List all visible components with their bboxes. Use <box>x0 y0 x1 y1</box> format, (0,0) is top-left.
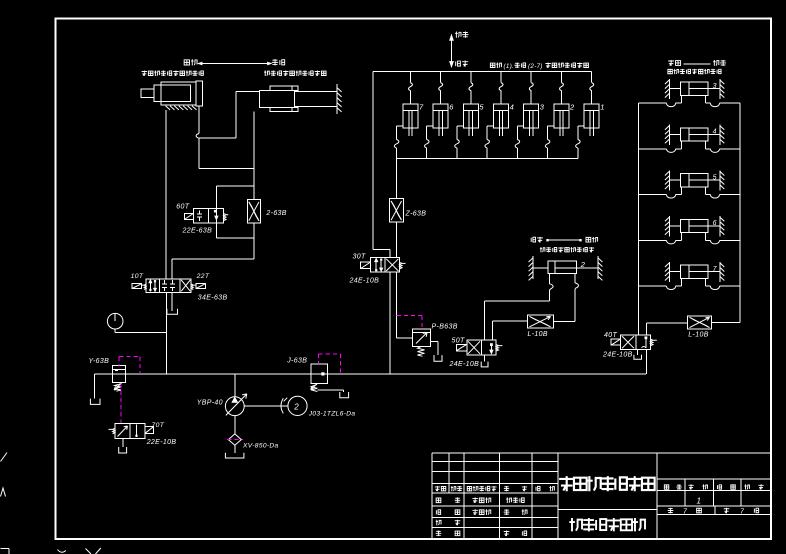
right header mark qty mass scale <box>664 485 668 489</box>
spring of valve 60T <box>224 214 229 221</box>
wire 50T to throttle L-10B <box>492 321 494 340</box>
direction arrow line <box>199 63 272 65</box>
tank symbol under 40T <box>637 350 639 355</box>
solenoid coil 50T <box>456 344 467 351</box>
throttle valve L-10B (right) <box>688 316 712 329</box>
label xiang-zuo (left) <box>668 60 674 66</box>
caption loading manipulator fwd/back cylinder <box>264 70 269 75</box>
cylinder front-back loading (top-middle) <box>259 90 294 107</box>
relief valve Y-63B <box>113 366 126 383</box>
svg-text:4: 4 <box>510 103 515 112</box>
tank symbol under 70T <box>122 438 124 447</box>
spring of P-B63B <box>418 347 425 357</box>
row design <box>436 498 441 503</box>
label xia-jiang (down) <box>456 61 461 66</box>
tank symbol under 50T <box>484 355 486 362</box>
svg-text:5: 5 <box>479 103 484 112</box>
lift cylinder 1 <box>591 72 593 83</box>
arrow line <box>684 63 711 65</box>
bypass frame of valve group 22E-63B <box>216 185 254 187</box>
lift cylinder 5 <box>470 72 472 83</box>
valve 34E-63B three-position <box>146 279 191 293</box>
svg-text:10T: 10T <box>131 273 144 280</box>
caption traverse cylinders of feed manipulator <box>668 69 672 73</box>
svg-text:P-B63B: P-B63B <box>432 324 458 331</box>
svg-text:2: 2 <box>293 402 299 411</box>
svg-text:6: 6 <box>713 220 717 227</box>
spring of Y-63B <box>115 384 121 391</box>
svg-text:L-10B: L-10B <box>688 331 708 338</box>
label xiang-you of cylinder 2 <box>586 237 591 242</box>
clipped mark left margin <box>1 453 8 462</box>
svg-text:24E-10B: 24E-10B <box>349 277 380 284</box>
solenoid coil 30T <box>361 262 371 269</box>
fixed wall left of cylinder 2 <box>532 256 534 279</box>
svg-text:6: 6 <box>449 103 454 112</box>
pilot check valve Z-63B <box>390 199 404 222</box>
label xiang-zuo of cylinder 2 <box>531 237 536 242</box>
wire 40T bottom to main line <box>646 350 648 374</box>
svg-text:Z-63B: Z-63B <box>405 210 427 217</box>
svg-text:30T: 30T <box>353 253 366 260</box>
svg-text:22E-10B: 22E-10B <box>146 439 177 446</box>
bottom manifold line of lift cylinder bank <box>397 158 578 160</box>
pilot loop of J-63B (dashed) <box>317 354 319 364</box>
valve 50T 24E-10B <box>467 340 496 355</box>
lift cylinder 3 <box>530 72 532 83</box>
left rail from manifold down to valve 30T <box>372 72 374 250</box>
wire 30T left port to tank line <box>389 272 391 374</box>
label xiang-qian (forward) <box>272 59 278 65</box>
spring of valve 50T <box>496 345 502 352</box>
wire junction to loading cylinder <box>199 137 236 139</box>
pressure gauge <box>107 313 123 329</box>
lift cylinder 2 <box>560 72 562 83</box>
svg-text:L-10B: L-10B <box>528 331 548 338</box>
solenoid coil 10T <box>132 284 142 289</box>
tank symbol under filter <box>234 445 236 453</box>
pilot line to P-B63B (dashed) <box>397 315 422 317</box>
row total 7 sheets <box>668 508 674 514</box>
title block grid <box>431 453 433 539</box>
label xiang-you (right) <box>713 60 719 66</box>
pilot check valve 2-63B <box>247 200 260 223</box>
label xiang-hou (backward) <box>184 60 189 65</box>
svg-text:YBP-40: YBP-40 <box>197 399 223 406</box>
spring of valve 40T <box>650 339 656 346</box>
svg-text:60T: 60T <box>176 204 189 211</box>
svg-text:Y-63B: Y-63B <box>89 358 110 365</box>
wire loading cylinder bottom port down to valve group <box>253 111 255 185</box>
cylinder front-back feed (top-left) <box>161 82 196 105</box>
solenoid coil 70T <box>145 427 154 434</box>
wire to loading cylinder left port <box>236 90 260 92</box>
drain of P-B63B to tank <box>431 340 438 342</box>
fixed wall for loading cylinder rod <box>336 84 338 114</box>
svg-text:4: 4 <box>713 129 717 136</box>
svg-text:1: 1 <box>697 496 702 505</box>
relief valve P-B63B <box>413 329 431 346</box>
lift cylinder 4 <box>500 72 502 83</box>
clipped marks bottom margin <box>1 548 10 550</box>
wire bottom manifold to check valve Z-63B <box>396 159 398 199</box>
wire L-10B to clamp cylinder right <box>553 320 575 322</box>
variable pump YBP-40 <box>234 374 236 397</box>
caption loading manipulator traverse cylinder <box>540 247 545 252</box>
valve 70T 22E-10B <box>115 423 145 438</box>
main pressure/return line <box>95 373 646 375</box>
wire cylinder 2 left port to 50T <box>549 291 551 301</box>
title text Wuxi Technician College <box>569 518 582 531</box>
svg-text:J03-1TZL6-Da: J03-1TZL6-Da <box>308 410 356 417</box>
svg-text:5: 5 <box>713 174 717 181</box>
caption lift cylinders 1-7 <box>490 63 495 67</box>
top manifold line of lift cylinder bank <box>373 71 592 73</box>
caption feed manipulator fwd/back cylinder <box>142 70 147 75</box>
spring of valve 70T <box>109 428 116 434</box>
throttle valve L-10B (left) <box>527 315 553 328</box>
svg-text:22E-63B: 22E-63B <box>182 227 213 234</box>
svg-text:2-63B: 2-63B <box>265 210 286 217</box>
solenoid coil 40T <box>611 339 621 345</box>
traverse cylinder 6 <box>668 216 670 236</box>
up-down arrow <box>451 35 453 68</box>
svg-text:XV-850-Da: XV-850-Da <box>242 442 279 449</box>
valve 40T 24E-10B <box>621 335 651 350</box>
lift cylinder 6 <box>440 72 442 83</box>
row drawn-by <box>436 510 441 515</box>
svg-text:34E-63B: 34E-63B <box>198 295 228 302</box>
svg-text:50T: 50T <box>452 338 465 345</box>
label shang-sheng (up) <box>455 32 461 38</box>
relief valve J-63B <box>311 364 327 383</box>
svg-text:1: 1 <box>600 103 605 112</box>
cylinder 2 (loading manipulator traverse) <box>548 261 577 273</box>
svg-text:40T: 40T <box>604 332 617 339</box>
wire cylinder 2 right port to L-10B <box>574 290 576 322</box>
spring right of 34E-63B <box>191 284 196 290</box>
svg-text:22T: 22T <box>196 273 210 280</box>
suction filter XV-850 <box>234 416 236 434</box>
traverse cylinder 3 <box>668 79 670 99</box>
row check <box>436 520 441 526</box>
title text hydraulic system schematic <box>559 476 574 491</box>
wire frame bottom to 34E-63B port B <box>253 238 255 259</box>
shaft pump to motor <box>244 405 288 407</box>
svg-text:J-63B: J-63B <box>286 358 307 365</box>
svg-text:24E-10B: 24E-10B <box>602 351 633 358</box>
svg-text:2: 2 <box>569 103 575 112</box>
pedestal of cylinder 2 <box>549 274 551 284</box>
svg-text:2: 2 <box>580 260 586 269</box>
svg-text:70T: 70T <box>152 422 165 429</box>
mount hatching under cylinder <box>166 106 171 110</box>
row process <box>436 531 442 537</box>
wire right port of feed cylinder <box>198 106 200 133</box>
pilot loop of Y-63B (dashed) <box>118 357 120 367</box>
svg-text:3: 3 <box>540 103 545 112</box>
tank symbol under 34E-63B <box>171 293 173 311</box>
solenoid coil 22T <box>196 284 205 289</box>
electric motor <box>288 396 307 415</box>
valve 30T 24E-10B <box>371 258 400 273</box>
wire 40T top-right to L-10B right <box>646 323 648 335</box>
title block header row texts <box>435 486 440 491</box>
arrow line with dots <box>547 239 581 241</box>
svg-text:7: 7 <box>713 266 718 273</box>
solenoid coil 60T <box>184 214 193 220</box>
wire L-10B right to stack right rail <box>712 321 741 323</box>
svg-text:24E-10B: 24E-10B <box>449 361 480 368</box>
left rail of traverse stack <box>637 103 639 335</box>
right rail of traverse stack <box>739 103 741 322</box>
tank symbol at left end <box>94 374 96 399</box>
spring of valve 30T <box>400 262 406 269</box>
spring left of 34E-63B <box>142 284 147 290</box>
fixed wall right of cylinder 2 <box>597 256 599 279</box>
lift cylinder 7 <box>409 72 411 83</box>
wire P port of 34E-63B to pump line <box>166 293 168 374</box>
svg-text:7: 7 <box>419 103 424 112</box>
valve 60T 22E-63B <box>193 209 223 223</box>
traverse cylinder 4 <box>668 125 670 145</box>
svg-text:(2-7): (2-7) <box>528 63 543 70</box>
pilot line Y-63B down to valve 70T (dashed) <box>120 383 122 423</box>
svg-text:(1).: (1). <box>504 63 515 70</box>
svg-text:3: 3 <box>713 83 717 90</box>
wire 30T right port to relief P-B63B <box>396 272 398 338</box>
wire Z-63B to valve 30T <box>396 222 398 258</box>
traverse cylinder 7 <box>668 262 670 282</box>
wire left port of feed cylinder to valve 34E-63B <box>165 110 167 278</box>
spring of J-63B <box>311 383 318 389</box>
traverse cylinder 5 <box>668 170 670 190</box>
drain of J-63B to tank <box>318 389 344 391</box>
